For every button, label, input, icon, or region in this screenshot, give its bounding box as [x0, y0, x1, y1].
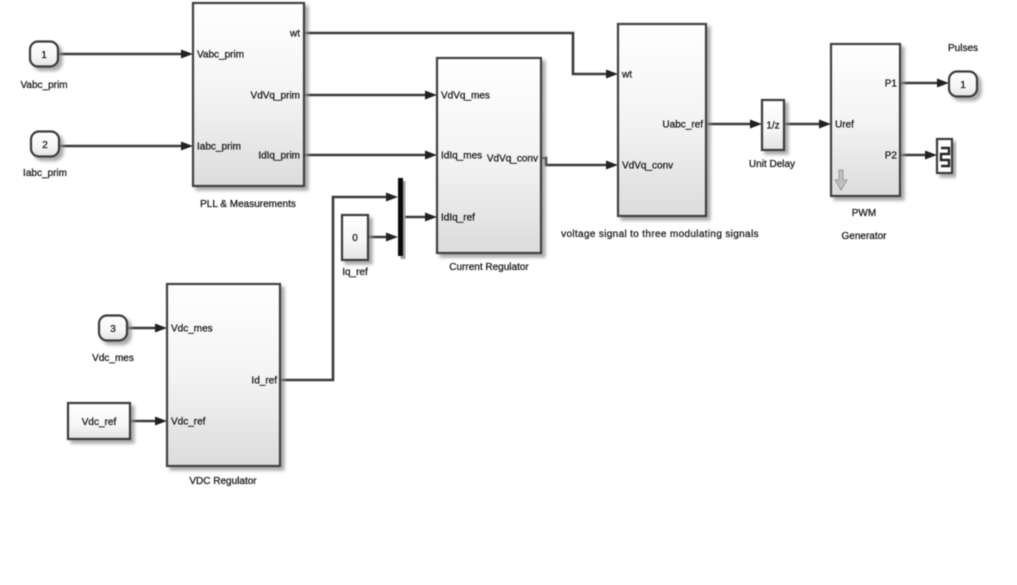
inport 3 [99, 316, 127, 341]
svg-text:PWM: PWM [852, 208, 876, 219]
constant Vdc_ref [68, 403, 130, 439]
wire port1 to PLL Vabc_prim [58, 50, 193, 59]
svg-text:Vdc_ref: Vdc_ref [82, 417, 117, 428]
subsystem voltage signal to three modulating signals [618, 24, 706, 216]
svg-text:Uabc_ref: Uabc_ref [662, 120, 703, 131]
svg-text:1: 1 [960, 80, 966, 91]
subsystem Current Regulator [437, 58, 541, 253]
terminator block at P2 [937, 139, 952, 173]
svg-text:VDC Regulator: VDC Regulator [189, 476, 257, 487]
wire mux output to Current Regulator IdIq_ref [403, 213, 437, 222]
svg-text:IdIq_ref: IdIq_ref [441, 213, 475, 224]
wire port3 to VDC Vdc_mes [127, 324, 167, 333]
svg-text:Current Regulator: Current Regulator [449, 262, 529, 273]
wire constant 0 to mux input 2 [368, 233, 398, 242]
wire voltage-signal Uabc_ref to Unit Delay [706, 120, 762, 129]
inport 2 [31, 132, 59, 157]
svg-text:Iabc_prim: Iabc_prim [197, 142, 241, 153]
svg-text:Unit Delay: Unit Delay [749, 159, 795, 170]
svg-text:VdVq_mes: VdVq_mes [441, 91, 490, 102]
subsystem PWM Generator [831, 44, 900, 196]
svg-text:Id_ref: Id_ref [251, 376, 277, 387]
svg-text:Vdc_mes: Vdc_mes [92, 353, 134, 364]
svg-text:Pulses: Pulses [948, 43, 978, 54]
svg-text:Vabc_prim: Vabc_prim [20, 80, 67, 91]
unit delay 1/z [762, 100, 784, 150]
svg-text:wt: wt [289, 29, 300, 40]
outport 1 Pulses [949, 72, 977, 97]
svg-text:P2: P2 [885, 151, 898, 162]
svg-text:3: 3 [110, 324, 116, 335]
wire PLL IdIq_prim to Current Regulator IdIq_mes [304, 151, 437, 160]
subsystem VDC Regulator [167, 284, 280, 466]
svg-text:Generator: Generator [841, 231, 887, 242]
wire PLL wt to voltage-signal block [304, 33, 618, 79]
svg-text:2: 2 [42, 140, 48, 151]
mux [401, 181, 406, 259]
svg-text:IdIq_prim: IdIq_prim [258, 151, 300, 162]
constant 0 [342, 215, 368, 260]
svg-text:Vdc_mes: Vdc_mes [171, 324, 213, 335]
inport 1 [30, 42, 58, 67]
wire port2 to PLL Iabc_prim [59, 142, 193, 151]
wire Vdc_ref constant to VDC Vdc_ref [130, 417, 167, 426]
wire VDC Id_ref up to mux input 1 [280, 193, 398, 381]
svg-text:VdVq_conv: VdVq_conv [487, 154, 538, 165]
svg-text:0: 0 [352, 233, 358, 244]
svg-text:Iq_ref: Iq_ref [342, 267, 368, 278]
wire Current Regulator VdVq_conv to voltage-signal block [541, 158, 618, 170]
svg-text:1/z: 1/z [766, 121, 779, 132]
svg-text:wt: wt [621, 70, 632, 81]
svg-text:Uref: Uref [835, 120, 854, 131]
svg-text:VdVq_prim: VdVq_prim [251, 91, 300, 102]
svg-text:Vdc_ref: Vdc_ref [171, 417, 206, 428]
wire Unit Delay to PWM Uref [784, 120, 831, 129]
svg-text:VdVq_conv: VdVq_conv [622, 161, 673, 172]
svg-text:P1: P1 [885, 79, 898, 90]
svg-text:voltage signal to three modula: voltage signal to three modulating signa… [561, 229, 759, 240]
wire PWM P2 to terminator [900, 151, 937, 160]
svg-text:1: 1 [41, 50, 47, 61]
svg-text:Iabc_prim: Iabc_prim [23, 168, 67, 179]
subsystem PLL & Measurements [193, 3, 304, 186]
svg-text:IdIq_mes: IdIq_mes [441, 151, 482, 162]
wire PWM P1 to outport Pulses [900, 79, 949, 88]
wire PLL VdVq_prim to Current Regulator VdVq_mes [304, 91, 437, 100]
svg-text:Vabc_prim: Vabc_prim [197, 50, 244, 61]
svg-text:PLL & Measurements: PLL & Measurements [200, 199, 296, 210]
